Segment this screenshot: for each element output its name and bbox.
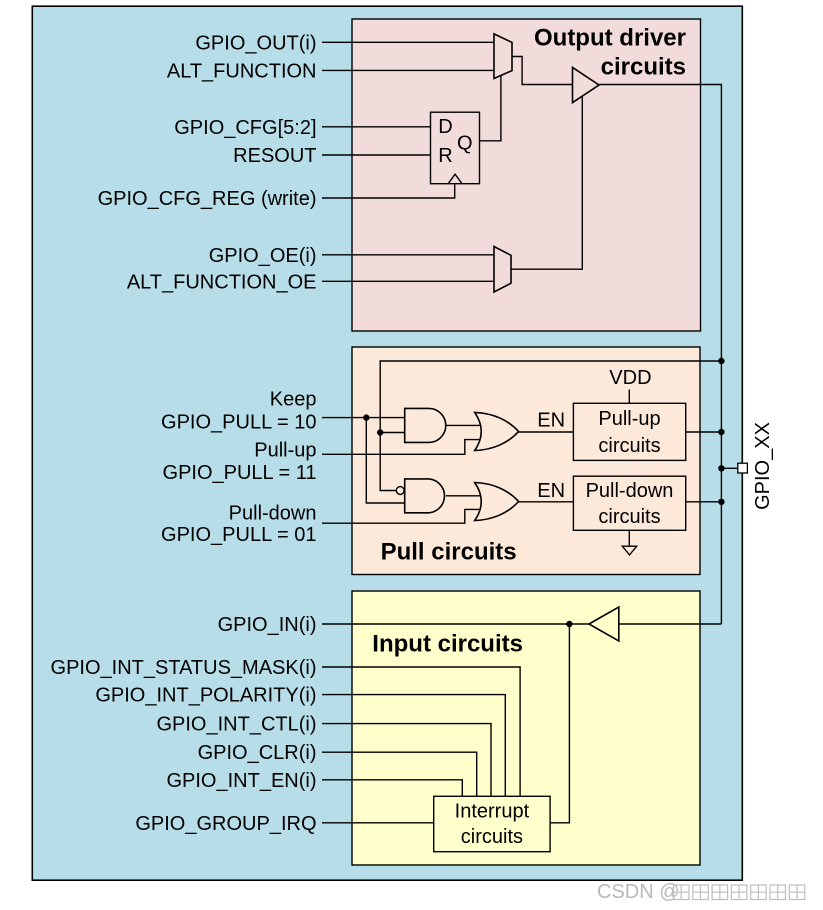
wire G1 output xyxy=(446,424,480,426)
wire interrupt out to GPIO_IN xyxy=(550,624,569,823)
mux MUX2 xyxy=(494,247,511,293)
title Output driver circuits xyxy=(534,25,686,81)
svg-text:R: R xyxy=(438,145,452,167)
wire U1 output to GPIO bus xyxy=(599,85,721,625)
block interrupt circuits xyxy=(434,796,550,851)
svg-text:EN: EN xyxy=(537,480,565,502)
buffer U3 input xyxy=(589,607,619,641)
svg-text:ALT_FUNCTION_OE: ALT_FUNCTION_OE xyxy=(127,271,317,293)
wire bus to pad xyxy=(721,467,737,469)
wire D input xyxy=(322,126,431,128)
svg-text:Q: Q xyxy=(457,133,473,155)
svg-text:Pull-down: Pull-down xyxy=(229,502,317,524)
label Keep GPIO_PULL = 10 xyxy=(161,389,316,434)
label Pull-down GPIO_PULL = 01 xyxy=(161,502,316,546)
junction feedback to AND xyxy=(377,429,383,435)
wire ALT_FUNCTION xyxy=(322,69,494,71)
svg-text:ALT_FUNCTION: ALT_FUNCTION xyxy=(167,60,317,82)
svg-text:VDD: VDD xyxy=(609,367,651,389)
input circuits block xyxy=(352,591,700,865)
svg-text:Input circuits: Input circuits xyxy=(372,631,523,658)
junction bus pull-down xyxy=(718,499,724,505)
buffer U1 output driver xyxy=(573,67,600,102)
wire pull-up to OR gate xyxy=(322,440,480,455)
svg-text:GPIO_XX: GPIO_XX xyxy=(752,422,774,510)
svg-text:GPIO_IN(i): GPIO_IN(i) xyxy=(218,614,317,636)
svg-text:GPIO_OE(i): GPIO_OE(i) xyxy=(209,245,317,267)
wire GPIO_CLR xyxy=(322,752,477,796)
junction bus feedback xyxy=(718,358,724,364)
junction bus pull-up xyxy=(718,429,724,435)
wire G3 output xyxy=(446,495,480,497)
wire MUX2 output to buffer enable xyxy=(511,97,582,270)
wire VDD stem xyxy=(628,390,630,404)
svg-text:circuits: circuits xyxy=(598,506,660,528)
wire clock xyxy=(322,184,455,198)
wire feedback from bus to gates xyxy=(380,361,721,491)
svg-text:GPIO_PULL = 01: GPIO_PULL = 01 xyxy=(161,524,316,546)
svg-text:GPIO_INT_STATUS_MASK(i): GPIO_INT_STATUS_MASK(i) xyxy=(51,657,317,679)
wire keep to AND gate xyxy=(322,417,405,419)
svg-text:GPIO_INT_EN(i): GPIO_INT_EN(i) xyxy=(166,770,316,792)
or-gate G2 xyxy=(475,412,519,450)
svg-text:Pull-up: Pull-up xyxy=(254,439,316,461)
wire Q to MUX1 select xyxy=(480,76,501,141)
svg-text:circuits: circuits xyxy=(601,54,686,81)
flip-flop U2 xyxy=(431,112,480,184)
wire GPIO_OUT(i) xyxy=(322,41,494,43)
svg-text:GPIO_GROUP_IRQ: GPIO_GROUP_IRQ xyxy=(135,813,316,835)
wire pull-down to bus xyxy=(686,501,722,503)
nand-gate G3 xyxy=(396,479,444,513)
label Pull-up GPIO_PULL = 11 xyxy=(163,439,317,484)
svg-text:EN: EN xyxy=(537,409,565,431)
svg-text:CSDN @: CSDN @ xyxy=(597,881,680,903)
svg-text:GPIO_INT_POLARITY(i): GPIO_INT_POLARITY(i) xyxy=(95,685,316,707)
wire keep branch to NAND input xyxy=(366,418,404,503)
wire pull-up to bus xyxy=(686,431,722,433)
wire pull-down to OR gate xyxy=(322,509,480,523)
wire GPIO_IN xyxy=(322,623,589,625)
wire G4 output EN xyxy=(519,501,574,503)
svg-text:GPIO_PULL = 10: GPIO_PULL = 10 xyxy=(161,412,316,434)
svg-text:Keep: Keep xyxy=(270,389,317,411)
block pull-down circuits xyxy=(573,476,685,530)
wire GPIO_INT_CTL xyxy=(322,724,491,797)
block pull-up circuits xyxy=(573,403,685,460)
pad GPIO_XX xyxy=(738,463,748,473)
svg-text:circuits: circuits xyxy=(461,826,523,848)
svg-text:GPIO_PULL = 11: GPIO_PULL = 11 xyxy=(163,462,317,484)
svg-text:GPIO_CLR(i): GPIO_CLR(i) xyxy=(198,742,317,764)
watermark xyxy=(597,881,805,903)
wire ALT_FUNCTION_OE xyxy=(322,280,494,282)
svg-text:Interrupt: Interrupt xyxy=(455,800,530,822)
or-gate G4 xyxy=(475,483,519,521)
wire GPIO_GROUP_IRQ xyxy=(322,822,434,824)
wire R input xyxy=(322,154,431,156)
svg-text:D: D xyxy=(438,116,452,138)
and-gate G1 xyxy=(405,408,446,442)
svg-text:GPIO_CFG[5:2]: GPIO_CFG[5:2] xyxy=(174,117,316,139)
output driver circuits block xyxy=(352,19,701,331)
svg-text:GPIO_INT_CTL(i): GPIO_INT_CTL(i) xyxy=(156,714,316,736)
svg-text:Pull-down: Pull-down xyxy=(586,480,674,502)
junction keep node xyxy=(363,414,369,420)
wire MUX1 output to buffer xyxy=(512,57,573,85)
wire feedback branch to AND input xyxy=(380,432,405,434)
wire GPIO_INT_STATUS_MASK xyxy=(322,667,520,796)
svg-text:circuits: circuits xyxy=(598,435,660,457)
wire GPIO_INT_EN xyxy=(322,780,462,797)
svg-text:Pull-up: Pull-up xyxy=(598,408,660,430)
wire GPIO_OE(i) xyxy=(322,254,494,256)
svg-text:Output driver: Output driver xyxy=(534,25,686,52)
svg-text:Pull circuits: Pull circuits xyxy=(381,539,517,566)
svg-text:RESOUT: RESOUT xyxy=(233,145,316,167)
pull circuits block xyxy=(352,347,700,575)
ground xyxy=(622,530,636,555)
wire G2 output EN xyxy=(519,431,574,433)
svg-text:GPIO_OUT(i): GPIO_OUT(i) xyxy=(195,32,316,54)
wire GPIO_INT_POLARITY xyxy=(322,695,505,797)
svg-text:GPIO_CFG_REG (write): GPIO_CFG_REG (write) xyxy=(98,188,317,210)
wire U3 input from bus xyxy=(619,623,722,625)
mux MUX1 xyxy=(494,34,512,79)
junction bus pad xyxy=(718,465,724,471)
junction GPIO_IN node xyxy=(566,621,572,627)
